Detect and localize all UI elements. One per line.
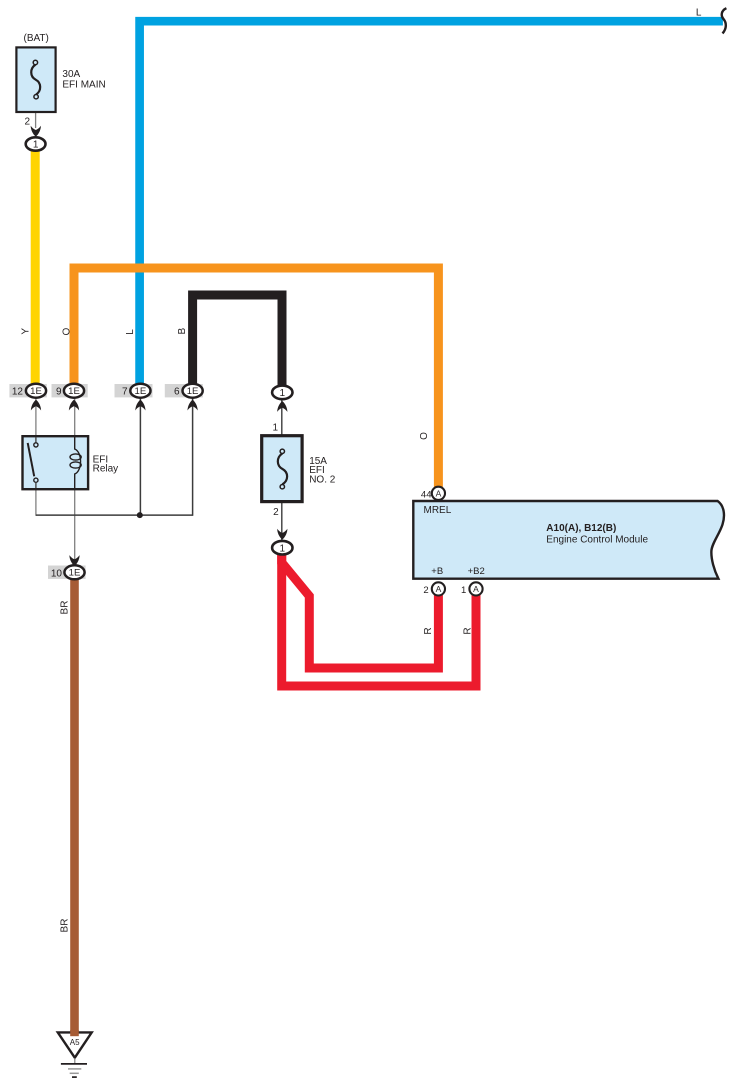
- svg-text:A10(A), B12(B): A10(A), B12(B): [546, 523, 616, 534]
- wire Y yellow: [31, 149, 40, 386]
- junction dot: [137, 512, 143, 518]
- svg-text:1: 1: [280, 388, 286, 399]
- svg-text:1E: 1E: [68, 386, 80, 397]
- connector oval 1 (below 15A fuse): [272, 541, 292, 555]
- relay EFI box: [23, 436, 89, 489]
- svg-text:BR: BR: [60, 919, 71, 933]
- svg-text:30A: 30A: [62, 69, 80, 80]
- svg-text:6: 6: [174, 387, 180, 398]
- thin line 12(1E) to relay switch: [35, 397, 37, 444]
- relay coil: [75, 437, 81, 488]
- svg-text:(BAT): (BAT): [24, 33, 49, 44]
- svg-text:Y: Y: [21, 328, 32, 335]
- thin line fuse15A pin2 to oval1: [281, 500, 283, 540]
- wire R to +B: [282, 551, 439, 668]
- svg-text:+B: +B: [431, 566, 443, 577]
- svg-text:EFI MAIN: EFI MAIN: [62, 80, 105, 91]
- svg-text:L: L: [696, 8, 702, 19]
- svg-text:BR: BR: [60, 601, 71, 615]
- thin line fuse30A to arrow: [35, 99, 37, 128]
- gray band connector strip 12: [9, 384, 46, 397]
- arrow down into oval 1: [277, 529, 287, 540]
- gray band connector strip 7: [115, 384, 153, 397]
- arrow down into connector 1: [31, 126, 41, 137]
- gray band connector strip 10: [48, 566, 86, 579]
- svg-text:1E: 1E: [30, 386, 42, 397]
- wire L blue: [140, 21, 723, 386]
- svg-text:44: 44: [421, 489, 432, 500]
- thin line relay coil to 10(1E): [74, 475, 76, 566]
- svg-text:2: 2: [273, 507, 279, 518]
- svg-text:2: 2: [423, 585, 428, 596]
- gray band connector strip 9: [52, 384, 88, 397]
- thin line relay switch to bus: [35, 482, 37, 516]
- svg-text:B: B: [177, 328, 188, 335]
- wire BR brown: [70, 577, 79, 1034]
- thin line 6(1E) to bus: [192, 397, 194, 516]
- svg-text:O: O: [61, 327, 72, 335]
- gray band connector strip 6: [165, 384, 203, 397]
- svg-text:R: R: [423, 627, 434, 634]
- svg-text:1E: 1E: [187, 386, 199, 397]
- fuse 30A element: [31, 65, 40, 95]
- svg-text:1: 1: [461, 585, 466, 596]
- svg-text:A: A: [436, 489, 442, 499]
- svg-text:NO. 2: NO. 2: [309, 474, 336, 485]
- fuse 15A EFI NO.2 box: [262, 436, 302, 502]
- svg-text:L: L: [125, 329, 136, 335]
- ground A5: [58, 1032, 92, 1057]
- connector 10 (1E): [69, 555, 79, 566]
- bus horizontal line: [36, 514, 193, 516]
- svg-text:+B2: +B2: [468, 566, 485, 577]
- ECM box: [413, 501, 724, 579]
- thin line 7(1E) to bus: [139, 397, 141, 515]
- svg-text:A: A: [473, 584, 479, 594]
- svg-text:MREL: MREL: [424, 505, 452, 516]
- fuse 15A element: [278, 454, 287, 485]
- wire B black: [193, 295, 282, 387]
- svg-text:10: 10: [51, 568, 63, 579]
- wire R to +B2: [282, 551, 476, 686]
- svg-text:A5: A5: [70, 1038, 80, 1047]
- svg-text:12: 12: [12, 387, 24, 398]
- svg-text:R: R: [463, 627, 474, 634]
- svg-text:2: 2: [24, 117, 30, 128]
- thin line oval1 to fuse15A pin1: [281, 398, 283, 437]
- svg-text:Relay: Relay: [93, 464, 119, 475]
- relay switch: [35, 437, 37, 443]
- svg-text:Engine Control Module: Engine Control Module: [546, 535, 648, 546]
- thin line 9(1E) to relay coil: [74, 397, 76, 450]
- continuation squiggle: [722, 8, 727, 33]
- svg-text:O: O: [419, 432, 430, 440]
- svg-text:1: 1: [33, 140, 39, 151]
- svg-text:1E: 1E: [69, 568, 81, 579]
- svg-text:9: 9: [56, 387, 62, 398]
- arrow up into oval 1: [277, 401, 287, 412]
- svg-text:1: 1: [280, 543, 286, 554]
- svg-text:1E: 1E: [135, 386, 147, 397]
- connector oval 1 (above 15A fuse): [272, 386, 292, 400]
- svg-text:7: 7: [122, 387, 128, 398]
- svg-text:A: A: [436, 584, 442, 594]
- svg-text:1: 1: [272, 423, 278, 434]
- connector oval 1 (below 30A fuse): [26, 137, 46, 150]
- wire O orange: [74, 268, 438, 488]
- fuse 30A EFI MAIN box: [16, 47, 55, 112]
